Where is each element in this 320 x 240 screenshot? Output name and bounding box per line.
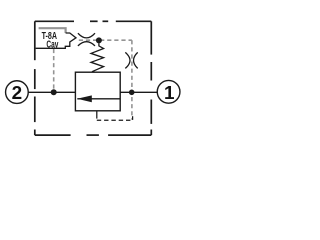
svg-text:2: 2 [12,83,23,104]
svg-text:Cav: Cav [46,39,58,50]
svg-text:1: 1 [164,83,175,104]
